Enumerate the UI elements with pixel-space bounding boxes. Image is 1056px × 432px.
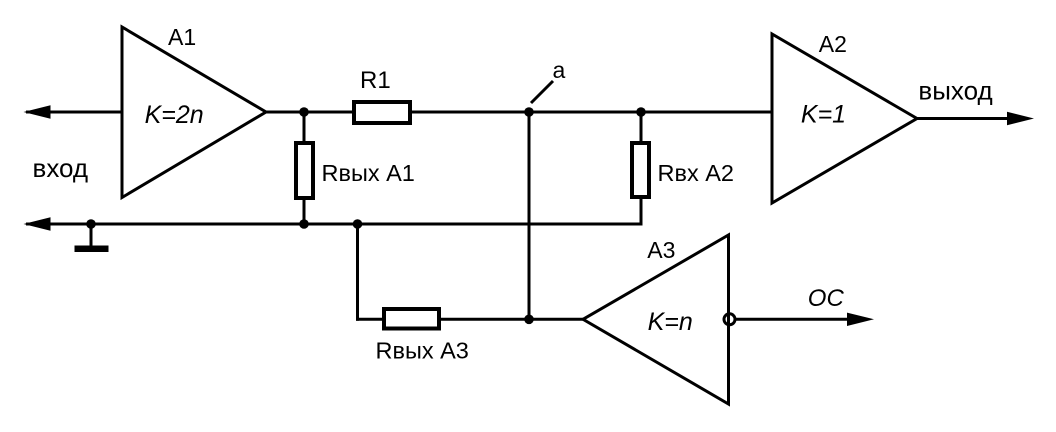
- wire: ground bus: [26, 223, 643, 226]
- resistor R1: [354, 102, 410, 123]
- wire: Rvyh A1 down to ground bus: [303, 198, 306, 224]
- node dot: ground: [86, 219, 96, 229]
- node a tick: [531, 81, 553, 103]
- svg-text:Rвх A2: Rвх A2: [658, 160, 734, 186]
- node dot: bus at 304: [299, 219, 309, 229]
- svg-text:A2: A2: [819, 31, 847, 57]
- svg-text:a: a: [553, 57, 566, 83]
- svg-text:A3: A3: [647, 237, 675, 263]
- arrow head: выход (top right): [1007, 112, 1034, 125]
- svg-text:K=n: K=n: [648, 308, 693, 336]
- node dot: A1 out: [299, 107, 309, 117]
- svg-text:R1: R1: [360, 67, 391, 94]
- wire: Rvh A2 down to ground bus: [640, 197, 643, 226]
- node dot: a: [524, 107, 534, 117]
- node dot: bus at 357.5: [353, 219, 363, 229]
- svg-text:Rвых A1: Rвых A1: [322, 160, 415, 186]
- node dot: A2 in: [636, 107, 646, 117]
- wire: elbow to Rvyh A3: [356, 318, 384, 321]
- wire: A3 bubble to OC: [736, 318, 849, 321]
- arrow head: ground bus (bottom left): [24, 217, 51, 230]
- arrow head: вход (top left): [24, 105, 51, 118]
- op-amp A1: [122, 27, 266, 198]
- svg-text:ОС: ОС: [808, 285, 845, 312]
- svg-text:Rвых A3: Rвых A3: [376, 338, 469, 364]
- op-amp A3 (points left): [583, 235, 729, 404]
- wire: input to A1: [26, 111, 122, 114]
- wire: A1 output to R1: [266, 111, 354, 114]
- svg-text:A1: A1: [168, 24, 196, 50]
- resistor Rvyh A1: [296, 143, 313, 198]
- ground bar: [75, 246, 109, 253]
- wire: Rvyh A3 to A3 tip: [439, 318, 583, 321]
- wire: ground stub: [90, 224, 93, 247]
- arrow head: OC (right): [847, 313, 874, 326]
- resistor Rvh A2: [632, 143, 649, 197]
- svg-text:вход: вход: [33, 153, 89, 183]
- op-amp A2: [772, 34, 917, 203]
- wire: node 357.5 down to Rvyh A3 row: [356, 224, 359, 321]
- wire: node a down to A3 row: [528, 112, 531, 319]
- svg-text:K=1: K=1: [801, 101, 846, 129]
- svg-text:K=2n: K=2n: [145, 101, 204, 129]
- wire: node at 304 down to Rvyh A1: [303, 112, 306, 143]
- node dot: A3 row: [524, 315, 534, 325]
- wire: node 641 down to Rvh A2: [640, 112, 643, 143]
- svg-text:выход: выход: [918, 76, 992, 106]
- wire: A2 output: [917, 117, 1008, 120]
- inversion bubble on A3 output: [724, 314, 735, 325]
- resistor Rvyh A3: [384, 309, 439, 329]
- wire: R1 to A2 input: [410, 111, 772, 114]
